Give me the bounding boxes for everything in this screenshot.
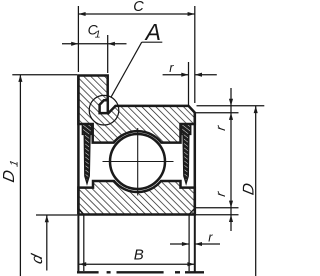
svg-text:C: C xyxy=(133,0,144,15)
svg-text:A: A xyxy=(144,19,161,45)
svg-text:B: B xyxy=(134,247,144,264)
svg-text:1: 1 xyxy=(95,29,101,41)
